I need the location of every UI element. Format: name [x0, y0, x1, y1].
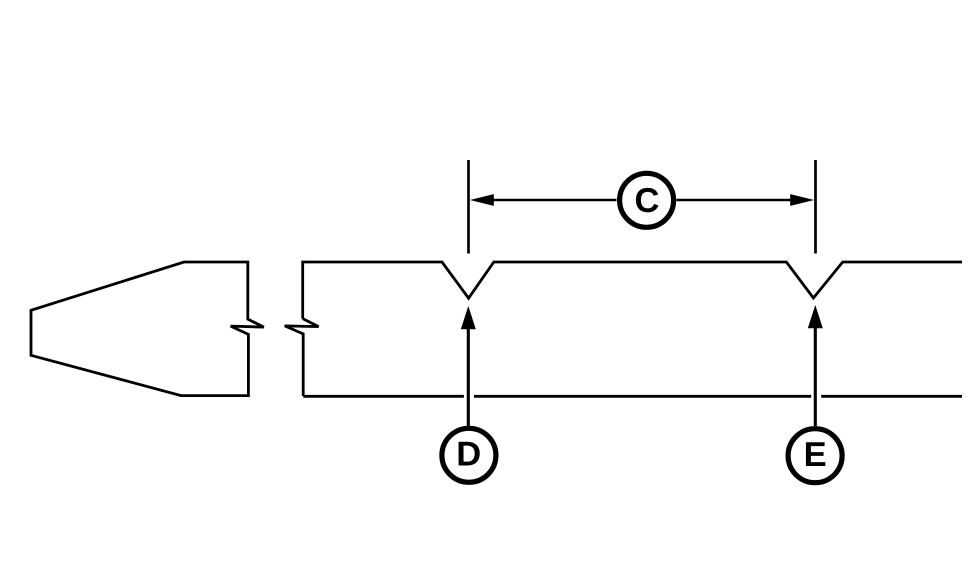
svg-text:E: E [804, 436, 827, 474]
svg-text:C: C [635, 182, 660, 220]
dimension arrowhead left [470, 194, 494, 206]
dimension line right half [677, 199, 794, 202]
balloon circle E [788, 429, 842, 483]
extension line right [814, 160, 817, 254]
balloon circle D [442, 428, 496, 482]
svg-text:D: D [456, 435, 481, 473]
break zigzag on bar left edge [285, 319, 319, 396]
gap in bottom edge at arrow E [811, 392, 821, 402]
tapered rod end (left piece) with break line [31, 262, 264, 396]
gap in bottom edge at arrow D [464, 392, 474, 402]
main bar (right piece) with break line and two V-notches [303, 262, 962, 319]
dimension line left half [491, 199, 617, 202]
balloon circle C [620, 173, 674, 227]
leader arrow E [814, 327, 817, 426]
dimension arrowhead right [790, 194, 814, 206]
leader arrow D [467, 328, 470, 426]
bar bottom edge [303, 395, 962, 398]
extension line left [467, 160, 470, 254]
